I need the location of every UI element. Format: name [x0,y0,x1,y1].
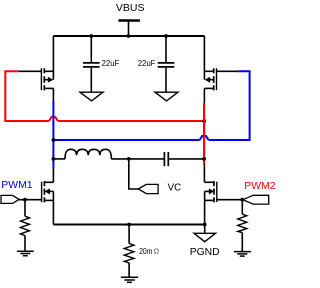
wire red net (Q1 gate to right switch node) [5,71,204,164]
ground under Rsense [121,277,138,282]
svg-text:22uF: 22uF [102,58,120,68]
capacitor C2 22uF [158,36,175,92]
junction dot PWM2 [240,198,244,202]
ground PGND (triangle) [194,225,216,242]
ground (chassis triangle) under C1 [80,92,103,101]
VBUS power bar symbol [118,19,139,21]
wire VBUS stem [128,21,130,36]
junction dot rail-Rsense [127,223,131,227]
wire left switch node (black parts) [52,88,54,101]
junction dot VC tap [127,157,131,161]
junction dot rail-PGND [203,223,207,227]
svg-text:PWM2: PWM2 [244,180,275,192]
junction dot red node [202,119,206,123]
capacitor C1 22uF [83,36,100,92]
wire right switch node (black parts) [203,88,205,103]
resistor R1 (PWM1 pulldown) [21,200,30,251]
junction dot rail-cap1 [89,34,93,38]
net tag VC [138,184,158,193]
wire bottom rail [53,224,204,226]
ground (chassis triangle) under C2 [155,92,178,101]
transistor Q2 (right high-side PMOS) [204,36,238,90]
svg-text:VC: VC [168,182,182,194]
wire top rail [53,35,204,37]
junction dot rail-cap2 [164,34,168,38]
junction dot PWM1 [23,198,27,202]
junction dot right node / cap [202,157,206,161]
junction dot left node / inductor tap [52,157,56,161]
wire VC tap [129,159,138,189]
svg-text:22uF: 22uF [138,58,156,68]
wire PWM1 to gate [19,199,25,201]
ground under R2 [234,252,251,257]
junction dot rail-VBUS [127,34,131,38]
resistor Rsense 20mOhm [124,225,134,277]
svg-text:PGND: PGND [190,246,220,258]
junction dot blue node [52,138,56,142]
net tag PWM2 [243,195,269,204]
transistor Q1 (left high-side PMOS) [19,36,54,90]
wire red net vertical (over blue hop) [203,103,205,164]
svg-text:Ω: Ω [154,247,160,256]
inductor L1 [53,149,164,159]
input tag PWM1 [1,195,19,203]
svg-text:PWM1: PWM1 [1,179,32,191]
wire PWM2 tag [241,199,244,201]
transistor Q3 (left low-side NMOS) [25,181,53,224]
resistor R2 (PWM2 pulldown) [238,200,247,252]
svg-text:20m: 20m [139,246,152,256]
capacitor C3 (series) [164,152,204,166]
ground under R1 [17,251,34,256]
wire blue net (Q2 gate to left switch node) [53,71,249,168]
transistor Q4 (right low-side NMOS) [204,181,242,224]
svg-text:VBUS: VBUS [116,2,145,14]
